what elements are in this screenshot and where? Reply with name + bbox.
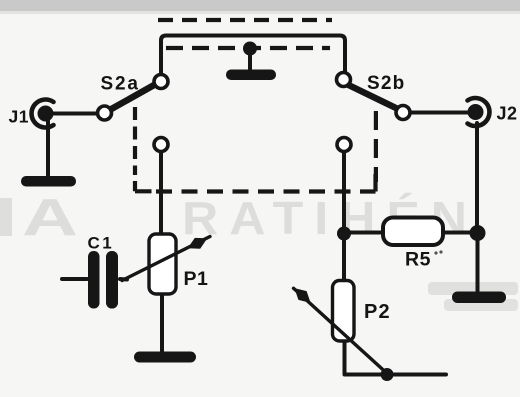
svg-text:C1: C1 [88, 234, 115, 253]
svg-text:S2b: S2b [367, 73, 405, 94]
svg-text:J1: J1 [9, 107, 29, 127]
svg-text:P1: P1 [184, 268, 209, 290]
svg-text:P2: P2 [364, 301, 391, 323]
svg-text:A: A [22, 189, 78, 247]
svg-text:R5: R5 [405, 249, 431, 271]
svg-text:J2: J2 [497, 104, 518, 124]
svg-text:S2a: S2a [101, 74, 140, 95]
